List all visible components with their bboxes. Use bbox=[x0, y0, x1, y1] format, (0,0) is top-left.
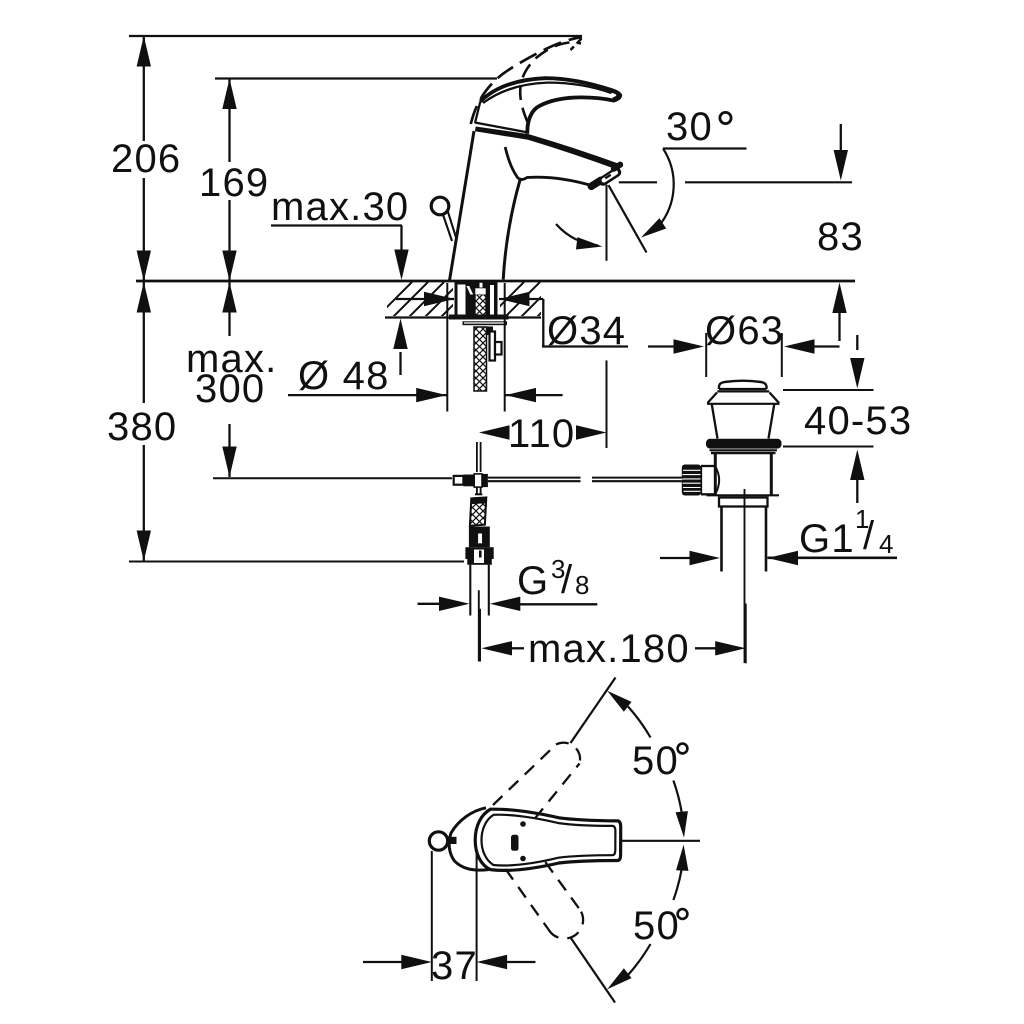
reference line 380 bottom bbox=[129, 561, 464, 563]
reference line top (206 level) bbox=[129, 35, 582, 37]
drain centerline bbox=[744, 489, 746, 663]
svg-text:Ø 48: Ø 48 bbox=[298, 354, 390, 398]
lever handle (solid) bbox=[480, 78, 620, 134]
seal flange (black) bbox=[706, 439, 782, 449]
svg-text:37: 37 bbox=[431, 944, 478, 988]
top view handle inner line bbox=[482, 815, 616, 866]
svg-text:G1: G1 bbox=[799, 517, 855, 561]
dimension 37 bbox=[363, 851, 536, 988]
threaded stud lower (x-hatch) bbox=[474, 327, 487, 391]
50deg arc lower bbox=[603, 844, 689, 994]
top view ball bbox=[429, 832, 447, 850]
faucet body right edge bbox=[503, 180, 520, 280]
shank white sliver bbox=[467, 286, 474, 295]
lever handle inner accent line bbox=[483, 83, 612, 103]
30deg arc bbox=[659, 149, 674, 227]
50deg arc upper bbox=[603, 686, 690, 838]
vertical pull rod bbox=[476, 442, 478, 472]
top view handle outline bbox=[475, 809, 621, 870]
raised handle tip cap dash bbox=[571, 39, 582, 51]
aerator inner dash bbox=[605, 175, 611, 179]
aerator top bar bbox=[614, 165, 620, 169]
aerator housing outline bbox=[603, 172, 617, 181]
deck slab bottom line bbox=[385, 316, 541, 318]
top view cartridge notch bbox=[511, 835, 519, 851]
dimension max.300 bbox=[186, 282, 277, 477]
svg-text:300: 300 bbox=[195, 367, 265, 411]
deck hatching left of hole bbox=[376, 282, 572, 318]
shank hole dark fill bbox=[455, 282, 498, 315]
horizontal rod right segment bbox=[592, 477, 682, 483]
slip nut band bbox=[719, 498, 768, 507]
braided hose (x-hatch) bbox=[470, 497, 486, 525]
top view centerline bbox=[621, 840, 701, 842]
drain body bottom line bbox=[707, 494, 780, 496]
svg-text:169: 169 bbox=[199, 161, 269, 205]
svg-text:83: 83 bbox=[817, 215, 864, 259]
pop-up knob rod bbox=[443, 212, 457, 241]
top view body blob bbox=[449, 808, 489, 870]
reference line 169 level bbox=[215, 77, 497, 79]
svg-text:max.180: max.180 bbox=[528, 627, 690, 671]
junction small white box bbox=[454, 476, 464, 485]
svg-text:50: 50 bbox=[633, 904, 680, 948]
svg-text:206: 206 bbox=[111, 137, 181, 181]
pop-up knob ball bbox=[431, 197, 449, 215]
aerator axis line bbox=[619, 181, 657, 183]
faucet neck waist line bbox=[505, 147, 591, 186]
svg-text:G: G bbox=[517, 559, 549, 603]
top view ball stub bbox=[448, 837, 457, 844]
svg-text:4: 4 bbox=[879, 529, 893, 559]
handle base left edge bbox=[475, 102, 480, 124]
pipe centerline bbox=[478, 590, 480, 661]
stud white band bbox=[475, 288, 485, 294]
svg-text:Ø63: Ø63 bbox=[705, 309, 784, 353]
dimension max.30 label bbox=[271, 185, 409, 375]
clamp bracket detail bbox=[490, 332, 502, 361]
jet direction line bbox=[609, 185, 647, 252]
hose end nut bbox=[465, 547, 493, 559]
tailpipe bbox=[720, 507, 723, 572]
faucet spout top thick edge bbox=[475, 127, 621, 171]
raised handle dashed outer curve bbox=[471, 37, 582, 124]
svg-text:Ø34: Ø34 bbox=[547, 309, 626, 353]
cap base step bbox=[717, 390, 769, 392]
junction center bbox=[474, 474, 482, 487]
flow curve arrow bbox=[556, 224, 598, 246]
junction dark block left bbox=[463, 475, 474, 487]
svg-text:110: 110 bbox=[508, 412, 575, 456]
50deg axis line lower bbox=[571, 938, 616, 1003]
lever tip fill bbox=[611, 91, 620, 101]
svg-text:380: 380 bbox=[107, 405, 177, 449]
cap dome bbox=[719, 381, 767, 389]
50deg axis line upper bbox=[571, 678, 616, 744]
horseshoe washer bbox=[449, 315, 509, 320]
washer lower lip bbox=[463, 321, 508, 325]
dimension 380 bbox=[107, 282, 177, 561]
dashed handle rotated down bbox=[506, 862, 584, 939]
svg-text:max.30: max.30 bbox=[271, 185, 409, 229]
flare cone bbox=[708, 393, 718, 404]
flange lip bbox=[710, 449, 778, 451]
side port bbox=[701, 465, 715, 467]
svg-text:/: / bbox=[863, 514, 875, 558]
svg-text:8: 8 bbox=[575, 570, 589, 600]
svg-text:30: 30 bbox=[666, 105, 713, 149]
faucet body left edge bbox=[450, 131, 475, 281]
supply pipe bbox=[469, 565, 471, 616]
knurled knob bbox=[682, 465, 701, 496]
check valve bbox=[469, 527, 490, 548]
dimension 206 bbox=[111, 36, 181, 281]
threaded stud upper (x-hatch) bbox=[475, 295, 486, 316]
neck bbox=[712, 405, 718, 439]
shank white slot left bbox=[458, 285, 466, 315]
extension lines bbox=[446, 283, 448, 412]
dashed handle rotated up bbox=[493, 743, 580, 819]
raised handle dashed inner curve bbox=[520, 42, 581, 122]
top view handle dots bbox=[520, 821, 526, 827]
shank white slot right bbox=[490, 285, 494, 315]
svg-text:40-53: 40-53 bbox=[804, 399, 912, 443]
stud white tick top bbox=[480, 283, 483, 288]
countertop deck line bbox=[136, 280, 855, 283]
aerator bottom bar bbox=[591, 180, 601, 186]
drain body sides bbox=[714, 454, 717, 495]
svg-text:50: 50 bbox=[632, 739, 679, 783]
svg-text:/: / bbox=[561, 558, 573, 602]
30deg baseline bbox=[663, 147, 747, 149]
horizontal rod left segment bbox=[488, 477, 581, 483]
handle seam line bbox=[475, 123, 529, 133]
reference line rod level (max.300 bottom) bbox=[213, 477, 452, 479]
junction dark block right bbox=[482, 474, 488, 487]
dimension 169 bbox=[199, 79, 269, 282]
